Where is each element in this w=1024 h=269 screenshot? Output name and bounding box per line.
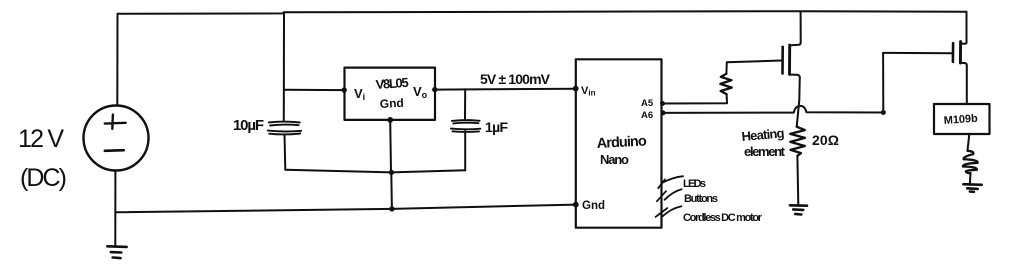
capacitor C1 top plate <box>269 122 300 126</box>
wire A5 to gate resistor <box>662 94 727 103</box>
wire Q2 gate horizontal <box>883 52 952 54</box>
wire M109b bottom lead <box>968 134 970 151</box>
wire C2 top lead <box>464 89 466 120</box>
ground GND1 <box>107 246 126 258</box>
svg-text:Heating: Heating <box>741 125 785 144</box>
transistor Q1 channel bar <box>788 45 791 74</box>
svg-text:M109b: M109b <box>943 113 978 127</box>
wire A6 to Q2 gate vertical <box>882 53 884 113</box>
node dot Arduino Gnd <box>573 202 579 208</box>
wire bottom ground rail <box>115 205 576 213</box>
ground GND3 <box>963 184 981 192</box>
node dot A5 pin <box>660 101 665 106</box>
wire A6 with hop over heater <box>663 106 883 113</box>
ground GND2 <box>790 205 807 214</box>
svg-text:LEDs: LEDs <box>683 178 706 190</box>
svg-text:A5: A5 <box>641 98 654 109</box>
svg-text:A6: A6 <box>641 110 653 121</box>
resistor R3 <box>963 151 978 173</box>
wire R2 bottom lead <box>796 156 799 205</box>
wire Vo to Vin <box>435 88 576 91</box>
capacitor C2 bottom plate <box>451 129 481 132</box>
wire top supply rail <box>118 11 967 14</box>
svg-text:Vi: Vi <box>354 86 365 102</box>
capacitor C2 top plate <box>452 120 480 123</box>
svg-text:element: element <box>744 144 786 159</box>
wire R1 to Q1 gate <box>726 61 782 74</box>
voltage source V1 circle <box>84 106 149 171</box>
capacitor C1 bottom plate <box>268 131 302 135</box>
node dot regulator Vo <box>432 87 437 92</box>
node dot A6 gate branch <box>881 110 886 115</box>
motor driver M109b box <box>934 104 990 134</box>
wire Q1 drain <box>790 11 801 45</box>
resistor R2 heating element 20ohm <box>790 127 805 156</box>
svg-text:Buttons: Buttons <box>684 193 718 205</box>
svg-text:Gnd: Gnd <box>379 96 404 111</box>
resistor R1 gate <box>720 74 732 95</box>
svg-text:5V ± 100mV: 5V ± 100mV <box>480 71 551 87</box>
svg-text:Vo: Vo <box>413 84 428 100</box>
svg-text:V8L05: V8L05 <box>375 75 409 92</box>
regulator U2 box <box>345 68 436 120</box>
arrow whisker LEDs <box>658 176 683 188</box>
wire Q2 drain <box>961 12 967 44</box>
svg-text:20Ω: 20Ω <box>812 132 839 148</box>
svg-text:Gnd: Gnd <box>582 200 605 212</box>
node dot regulator Gnd <box>387 117 393 123</box>
svg-text:Nano: Nano <box>600 152 629 167</box>
wire regulator ground rail <box>285 170 465 173</box>
wire Q2 source <box>960 63 966 104</box>
wire R3 bottom lead <box>969 173 972 184</box>
node dot regulator Vi <box>342 87 347 92</box>
wire C1 bottom lead <box>284 135 287 170</box>
node dot ground rail junction <box>389 170 394 175</box>
wire C2 bottom lead <box>464 131 466 170</box>
node dot Arduino Vin <box>573 86 579 92</box>
wire to regulator Vi <box>284 89 344 91</box>
voltage source plus sign <box>105 115 126 129</box>
node dot A6 pin <box>661 110 666 115</box>
wire source bottom lead <box>114 171 116 247</box>
wire regulator Gnd pin drop <box>389 120 392 172</box>
voltage source minus sign <box>105 149 124 152</box>
wire Q1 source <box>790 75 800 127</box>
transistor Q1 gate bar <box>781 47 784 74</box>
arrow whisker motor <box>656 206 682 217</box>
wire ground rail drop <box>390 172 393 209</box>
svg-text:10µF: 10µF <box>233 117 264 134</box>
svg-text:(DC): (DC) <box>20 164 67 192</box>
svg-text:1µF: 1µF <box>485 119 508 135</box>
svg-text:Vin: Vin <box>581 85 596 98</box>
svg-text:Cordless DC motor: Cordless DC motor <box>683 212 763 224</box>
Arduino U1 box <box>576 59 662 227</box>
svg-text:12 V: 12 V <box>18 125 64 153</box>
transistor Q2 channel bar <box>959 42 962 63</box>
arrow whisker Buttons <box>657 189 682 201</box>
wire input branch vertical <box>283 13 285 120</box>
transistor Q2 gate bar <box>952 43 955 62</box>
svg-text:Arduino: Arduino <box>596 133 647 152</box>
wire source top lead <box>116 14 118 106</box>
node dot bottom rail junction <box>389 206 394 211</box>
